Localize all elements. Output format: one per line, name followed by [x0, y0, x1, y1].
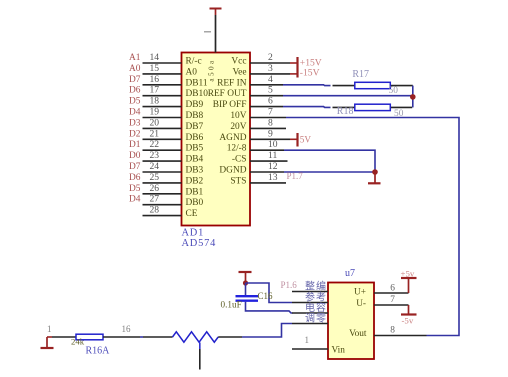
svg-text:整编: 整编: [305, 280, 327, 293]
svg-text:REF OUT: REF OUT: [208, 89, 247, 99]
svg-text:P1.6: P1.6: [281, 280, 298, 290]
svg-text:-5v: -5v: [402, 316, 414, 326]
svg-text:17: 17: [150, 85, 160, 96]
svg-text:R18: R18: [337, 106, 354, 117]
svg-text:AD574: AD574: [182, 238, 217, 249]
svg-text:DB8: DB8: [186, 111, 204, 121]
svg-text:8: 8: [390, 326, 395, 336]
svg-text:28: 28: [150, 205, 160, 216]
svg-text:R/-c: R/-c: [186, 57, 202, 67]
svg-text:8: 8: [268, 117, 273, 128]
svg-text:AGND: AGND: [219, 133, 246, 143]
svg-text:-CS: -CS: [232, 155, 247, 165]
svg-text:DB7: DB7: [186, 122, 204, 132]
svg-text:A1: A1: [129, 53, 141, 63]
svg-text:STS: STS: [230, 176, 246, 186]
svg-text:+5v: +5v: [401, 269, 415, 279]
svg-text:CE: CE: [186, 209, 198, 219]
svg-text:18: 18: [150, 96, 160, 107]
svg-text:DB5: DB5: [186, 144, 204, 154]
svg-text:DB1: DB1: [186, 187, 204, 197]
svg-text:DB4: DB4: [186, 155, 204, 165]
svg-text:D1: D1: [129, 140, 141, 150]
svg-text:20: 20: [150, 117, 160, 128]
svg-text:AD1: AD1: [182, 227, 205, 238]
svg-text:5V: 5V: [300, 134, 312, 144]
svg-text:电容: 电容: [305, 301, 327, 314]
svg-text:10: 10: [268, 139, 278, 150]
svg-text:16: 16: [122, 324, 132, 334]
svg-text:参考: 参考: [305, 291, 327, 304]
svg-text:5: 5: [268, 85, 273, 96]
svg-text:15: 15: [150, 63, 160, 74]
svg-text:16: 16: [150, 74, 160, 85]
svg-text:调零: 调零: [305, 313, 327, 325]
svg-text:9: 9: [268, 128, 273, 139]
svg-text:0.1uF: 0.1uF: [221, 300, 242, 310]
svg-text:7: 7: [268, 107, 273, 118]
svg-text:a50a: a50a: [208, 58, 216, 81]
svg-text:D7: D7: [129, 75, 141, 85]
svg-text:REF IN: REF IN: [217, 78, 247, 88]
svg-text:D4: D4: [129, 108, 141, 118]
svg-text:D4: D4: [129, 195, 141, 205]
svg-text:D6: D6: [129, 173, 141, 183]
svg-text:19: 19: [150, 107, 160, 118]
svg-text:1: 1: [305, 335, 310, 345]
svg-text:13: 13: [268, 172, 278, 183]
svg-text:BIP OFF: BIP OFF: [213, 100, 247, 110]
svg-text:DB2: DB2: [186, 176, 204, 186]
svg-text:50: 50: [394, 109, 404, 119]
svg-text:22: 22: [150, 139, 160, 150]
svg-text:DB0: DB0: [186, 198, 204, 208]
svg-text:D7: D7: [129, 162, 141, 172]
svg-text:DGND: DGND: [219, 166, 246, 176]
svg-text:D0: D0: [129, 151, 141, 161]
svg-text:D2: D2: [129, 129, 141, 139]
svg-text:24: 24: [150, 161, 160, 172]
svg-text:Vout: Vout: [349, 329, 367, 339]
svg-text:50: 50: [389, 86, 399, 96]
svg-text:7: 7: [390, 295, 395, 305]
svg-text:D6: D6: [129, 86, 141, 96]
svg-text:R17: R17: [352, 69, 369, 80]
svg-text:u7: u7: [345, 268, 355, 279]
svg-text:A0: A0: [129, 64, 141, 74]
svg-text:C16: C16: [258, 291, 274, 301]
svg-text:A0: A0: [186, 67, 198, 77]
svg-text:Vcc: Vcc: [231, 57, 246, 67]
svg-text:11: 11: [268, 150, 277, 161]
svg-text:DB11: DB11: [186, 78, 208, 88]
svg-text:R16A: R16A: [86, 346, 111, 357]
svg-text:DB3: DB3: [186, 166, 204, 176]
svg-text:27: 27: [150, 194, 160, 205]
svg-text:6: 6: [268, 96, 273, 107]
svg-text:2: 2: [268, 52, 273, 63]
svg-text:-15V: -15V: [300, 68, 320, 79]
svg-text:1: 1: [47, 324, 52, 334]
svg-text:14: 14: [150, 52, 160, 63]
svg-text:20V: 20V: [230, 122, 246, 132]
svg-text:6: 6: [390, 284, 395, 294]
svg-text:P1.7: P1.7: [287, 171, 304, 181]
svg-text:21: 21: [150, 128, 160, 139]
svg-text:Vin: Vin: [332, 346, 346, 356]
svg-text:DB10: DB10: [186, 89, 209, 99]
svg-text:24k: 24k: [71, 337, 85, 347]
svg-text:D5: D5: [129, 97, 141, 107]
svg-text:3: 3: [268, 63, 273, 74]
svg-text:DB9: DB9: [186, 100, 204, 110]
svg-text:25: 25: [150, 172, 160, 183]
svg-text:U-: U-: [356, 299, 366, 309]
svg-text:23: 23: [150, 150, 160, 161]
svg-text:26: 26: [150, 183, 160, 194]
svg-text:D5: D5: [129, 184, 141, 194]
svg-text:DB6: DB6: [186, 133, 204, 143]
svg-text:12/-8: 12/-8: [227, 144, 247, 154]
svg-text:Vee: Vee: [232, 67, 246, 77]
svg-text:12: 12: [268, 161, 278, 172]
svg-text:10V: 10V: [230, 111, 246, 121]
svg-text:U+: U+: [354, 287, 366, 297]
svg-text:4: 4: [268, 74, 273, 85]
svg-text:D3: D3: [129, 118, 141, 128]
